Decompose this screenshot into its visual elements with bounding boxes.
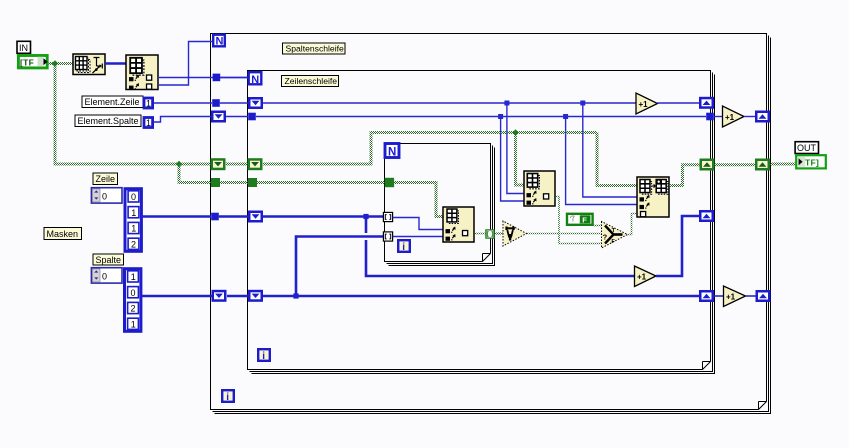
shift register inner-right (row counter) <box>700 98 713 108</box>
for loop Spaltenschleife (outer) main border <box>211 34 767 410</box>
svg-text:+1: +1 <box>725 113 735 122</box>
wire Zeile mask to inner shift register <box>219 215 248 218</box>
wire boolean-array from IN to Array Size <box>49 62 73 65</box>
junction boolean-array to Index Array 2 <box>512 129 518 135</box>
fold corner outer loop <box>759 402 767 410</box>
tunnel inner-left boolean array <box>248 178 257 187</box>
wire col element to Index Array 1 index1 <box>393 236 443 238</box>
shift register inner-right (Zeile mask) <box>700 211 713 221</box>
svg-text:OUT: OUT <box>797 143 817 153</box>
wire element to Select f input <box>555 197 602 244</box>
junction W2 a <box>498 114 503 119</box>
function Index Array 1 (inside innermost loop) <box>443 207 474 242</box>
wire tunnel to +1 <box>714 116 723 118</box>
wire And result to Select s input <box>527 233 602 235</box>
svg-text:N: N <box>388 147 396 159</box>
shift register outer-right boolean array <box>756 160 769 170</box>
wire row element to Index Array 1 index0 <box>393 218 443 230</box>
shift register inner-right (Spalte mask) <box>700 291 713 301</box>
wire Spalte mask array to outer shift register <box>141 295 213 298</box>
svg-text:0: 0 <box>102 191 107 201</box>
array constant Spalte [1,0,2,1] <box>125 269 141 332</box>
svg-text:1: 1 <box>131 208 136 218</box>
svg-text:1: 1 <box>146 118 151 128</box>
N terminal innermost loop <box>385 144 399 159</box>
svg-text:IN: IN <box>19 43 28 53</box>
svg-text:Zeile: Zeile <box>96 174 116 184</box>
shift register inner-left (Spalte mask) <box>249 291 262 301</box>
N terminal outer loop <box>213 35 225 48</box>
function And Array Elements <box>503 221 527 246</box>
label Zeilenschleife <box>282 76 339 87</box>
array index display Zeile <box>91 188 122 203</box>
array index display Spalte <box>91 268 122 283</box>
increment +1 Spalte mask <box>724 286 746 307</box>
junction W2 b <box>563 114 568 119</box>
function Index Array 2 <box>524 171 555 206</box>
wire +1 to outer-right shift register <box>744 116 755 118</box>
svg-text:0: 0 <box>131 288 136 298</box>
svg-text:T: T <box>612 228 616 234</box>
wire W2 drop to Index Array 2 index1 <box>501 117 524 202</box>
shift register inner-left (row counter) <box>249 98 262 108</box>
svg-text:2: 2 <box>131 304 136 314</box>
svg-text:Spaltenschleife: Spaltenschleife <box>286 44 345 54</box>
shift register outer-right (column counter) <box>756 112 769 122</box>
shift register outer-right (Spalte mask) <box>757 291 770 301</box>
wire boolean-array between green shift registers <box>226 163 248 166</box>
function Replace Array Subset <box>637 177 669 217</box>
constant 1 (Element.Zeile) <box>144 98 153 109</box>
wire Element.Zeile to tunnel <box>154 102 212 104</box>
junction W3 <box>363 214 368 219</box>
svg-text:N: N <box>251 74 259 86</box>
i terminal inner loop <box>258 349 270 362</box>
svg-text:Masken: Masken <box>47 229 79 239</box>
svg-text:Element.Spalte: Element.Spalte <box>78 116 139 126</box>
label OUT <box>795 142 818 154</box>
wire boolean-array branch to lower tunnels <box>179 164 211 183</box>
wire boolean-array up to top run <box>263 133 597 165</box>
tunnel innermost-right [] boolean <box>486 230 494 238</box>
svg-text:+1: +1 <box>639 100 649 109</box>
wire tunnel to inner shift register <box>220 102 248 104</box>
label Element.Spalte <box>75 115 141 127</box>
tunnel on outer left edge (Element.Zeile) <box>212 99 220 107</box>
svg-text:1: 1 <box>131 320 136 330</box>
tunnel outer-left (Zeile mask) <box>211 213 219 221</box>
for loop Zeilenschleife (inner) shadow frames <box>250 73 713 372</box>
function Array Size <box>73 54 105 75</box>
wire boolean-array to OUT <box>770 163 795 166</box>
wire W3 branch down and to +1 <box>366 217 635 277</box>
constant False <box>567 214 593 225</box>
svg-text:1: 1 <box>146 99 151 109</box>
junction at branch <box>176 161 182 167</box>
for loop Spaltenschleife (outer) shadow frames <box>213 36 769 412</box>
tunnel inner-left (column index) <box>248 113 256 121</box>
label Spalte <box>93 254 124 265</box>
svg-text:1: 1 <box>131 272 136 282</box>
wire W4 Spalte mask across inner loop <box>263 295 699 298</box>
shift register outer-left boolean array <box>212 159 225 169</box>
svg-text:Element.Zeile: Element.Zeile <box>85 97 140 107</box>
svg-text:0: 0 <box>102 271 107 281</box>
wire W2 drop to Replace index1 <box>566 117 637 205</box>
svg-text:i: i <box>402 242 405 253</box>
wire boolean 1D array to And Array Elements <box>494 232 503 234</box>
wire W1 row index across inner loop <box>263 102 636 104</box>
wire Spalte mask to inner shift register <box>227 295 248 298</box>
tunnel innermost-left boolean array <box>385 178 394 187</box>
shift register inner-left (Zeile mask) <box>249 212 262 222</box>
wire W2 column index across inner loop <box>256 116 706 118</box>
for loop Zeilenschleife (inner) main border <box>248 71 711 370</box>
svg-text:i: i <box>226 392 229 403</box>
fold corner innermost loop <box>483 254 491 262</box>
wire Select result to Replace element input <box>628 214 638 235</box>
wire size array to Index Array <box>105 62 126 65</box>
tunnel on outer left edge for rows count <box>213 74 221 82</box>
label Masken <box>44 228 82 240</box>
label Zeile <box>93 173 118 185</box>
svg-text:+1: +1 <box>637 272 647 281</box>
junction W1 b <box>580 101 585 106</box>
tunnel inner-right (column index) <box>706 113 714 121</box>
svg-text:+1: +1 <box>726 292 736 301</box>
wire cols count up to outer loop N <box>158 42 213 86</box>
tunnel innermost-left [] Zeile mask <box>383 212 392 221</box>
wire boolean-array tunnels row y183 <box>220 181 385 184</box>
fold corner inner loop <box>703 362 711 370</box>
svg-text:1: 1 <box>131 224 136 234</box>
svg-text:2: 2 <box>131 240 136 250</box>
function Select <box>602 222 628 249</box>
junction W1 a <box>504 101 509 106</box>
wire boolean-array trunk down left side <box>55 64 211 165</box>
shift register outer-left (Element.Spalte / column counter) <box>212 112 225 122</box>
tunnel outer-left boolean array <box>211 178 220 187</box>
svg-text:TF]: TF] <box>805 158 819 168</box>
wire W4 branch up to innermost tunnel <box>296 237 383 297</box>
crossing gap where Zeile branch crosses Spalte branch <box>364 233 367 240</box>
svg-text:?: ? <box>603 233 608 242</box>
shift register inner-right boolean array <box>701 160 714 170</box>
junction on IN wire <box>52 60 58 66</box>
label IN <box>17 41 31 53</box>
wire boolean-array down to Index Array 2 <box>516 133 525 186</box>
wire Element.Spalte to outer shift register <box>154 117 211 123</box>
increment +1 Zeile mask <box>635 266 657 287</box>
svg-text:F: F <box>582 215 587 224</box>
svg-text:i: i <box>262 351 265 362</box>
tunnel innermost-left [] Spalte mask <box>383 232 392 241</box>
array constant Zeile [0,1,1,2] <box>125 189 141 252</box>
wire Zeile mask array to outer tunnel <box>141 215 211 218</box>
svg-text:Spalte: Spalte <box>96 255 122 265</box>
svg-text:N: N <box>216 36 224 48</box>
wire False to Select t input <box>593 225 602 227</box>
increment +1 column counter <box>723 106 745 127</box>
N terminal inner loop <box>249 72 262 86</box>
wire W1 drop to Index Array 2 index0 <box>507 103 524 194</box>
svg-text:[TF: [TF <box>20 57 34 67</box>
wire boolean-array result to inner-right shift register <box>669 165 700 186</box>
svg-text:0: 0 <box>131 192 136 202</box>
wire rows tunnel to inner N <box>220 77 247 79</box>
i terminal innermost loop <box>398 240 410 253</box>
wire to +1 <box>714 295 724 297</box>
control terminal IN [TF] <box>18 56 47 68</box>
constant 1 (Element.Spalte) <box>144 118 153 129</box>
function Index Array (dimension sizes) <box>126 55 158 90</box>
i terminal outer loop <box>222 390 234 403</box>
wire +1 to outer-right shift register <box>746 295 756 297</box>
wire W3 Zeile mask across inner loop <box>263 215 383 218</box>
shift register inner-left boolean array <box>249 159 262 169</box>
wire boolean-array inside innermost to Index Array 1 <box>394 183 443 217</box>
wire to inner tunnel (column index) <box>226 116 248 118</box>
for loop innermost main border <box>385 144 491 262</box>
wire W1 drop to Replace index0 <box>583 103 637 197</box>
wire boolean-array between loops <box>715 163 756 166</box>
wire boolean-array down to Replace Array Subset <box>597 133 637 186</box>
increment +1 row counter <box>636 93 658 114</box>
wire rows count to inner loop N <box>158 77 248 79</box>
svg-text:Zeilenschleife: Zeilenschleife <box>285 76 338 86</box>
label Element.Zeile <box>82 96 143 108</box>
indicator terminal OUT [TF] <box>796 155 826 168</box>
wire +1 to inner-right shift register <box>658 102 700 104</box>
for loop innermost shadow frames <box>387 146 493 264</box>
wire +1 up to inner-right shift register <box>656 216 699 276</box>
junction W4 <box>293 293 298 298</box>
svg-text:F: F <box>611 239 615 245</box>
wire boolean element to output tunnel <box>474 233 486 235</box>
shift register outer-left (Spalte mask) <box>213 291 226 301</box>
label Spaltenschleife <box>283 43 346 54</box>
